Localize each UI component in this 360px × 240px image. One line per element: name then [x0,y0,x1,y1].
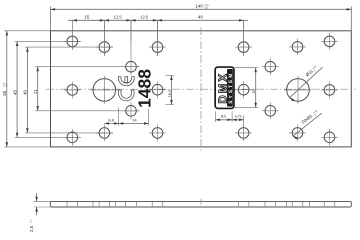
hole O5 H2 [289,125,306,142]
side view center tick [200,199,202,210]
dimension 6,9 and 14 (marking width) [104,108,148,126]
svg-text:40: 40 [198,14,203,19]
horizontal center line [46,88,356,90]
dimension 40 left [25,47,113,133]
svg-text:20: 20 [252,89,256,93]
svg-text:SYSTEM: SYSTEM [228,72,234,104]
dimension 21 [35,67,139,111]
svg-text:55: 55 [2,90,7,95]
svg-text:4,75: 4,75 [235,115,242,119]
leader and label 20xO5 +0,5 [293,113,322,140]
CE mark (rotated) [118,76,134,100]
svg-text:45: 45 [12,90,17,95]
hole O5 G [64,129,81,146]
plate outline (top view) [51,31,352,147]
hole O11 big-right [284,76,312,104]
svg-text:40: 40 [23,90,28,95]
hole O5 H [96,125,113,142]
hole O5 F [123,102,140,119]
svg-text:14: 14 [132,119,136,123]
svg-text:+0,5: +0,5 [2,82,5,87]
hole O5 E2 [235,81,252,98]
leader and label O11 +0,5 [290,67,323,101]
hole O5 A [64,33,81,50]
svg-text:15: 15 [84,14,89,19]
dimension 16,4 (marking height) [166,75,174,104]
hole O11 big-left [90,76,118,104]
hole O5 C [149,39,166,56]
hole O5 J2 [321,82,338,99]
hole O5 A2 [321,33,338,50]
DMX SYSTEM logo (rotated) [215,67,234,108]
dimension 20 (logo height) [234,68,258,108]
dimension row 15 / 12,5 / 12,5 / 40 [68,19,248,58]
vertical center line (bend axis) [200,27,202,151]
dimension 45 [15,41,81,137]
svg-text:12,5: 12,5 [140,14,149,19]
svg-text:140: 140 [195,4,203,9]
svg-text:16,4: 16,4 [168,90,172,97]
hole O5 B2 [289,39,306,56]
hole O5 B [96,39,113,56]
hole O5 C2 [235,39,252,56]
svg-text:21: 21 [33,89,38,94]
hole O5 G2 [321,129,338,146]
dimension 8,5 and 4,75 (logo) [215,111,243,126]
hole O5 I2 [235,125,252,142]
dimension 140 overall [51,7,352,31]
side view plate bar [50,201,351,207]
svg-text:-1,5: -1,5 [204,7,209,10]
hole O5 D2 [262,58,279,75]
svg-text:DMX: DMX [216,72,229,104]
hole O5 E [149,81,166,98]
svg-text:2,5: 2,5 [29,225,34,232]
hole O5 F2 [262,102,279,119]
hole O5 I [149,125,166,142]
svg-text:1488: 1488 [135,69,155,108]
svg-text:8,5: 8,5 [221,114,226,118]
side view hole edge lines [67,201,335,207]
hole O5 D [123,58,140,75]
dimension 55 height [4,31,50,147]
svg-text:12,5: 12,5 [114,14,123,19]
dimension 2,5 thickness [34,193,51,215]
svg-text:6,9: 6,9 [109,119,114,123]
hole O5 J [64,82,81,99]
